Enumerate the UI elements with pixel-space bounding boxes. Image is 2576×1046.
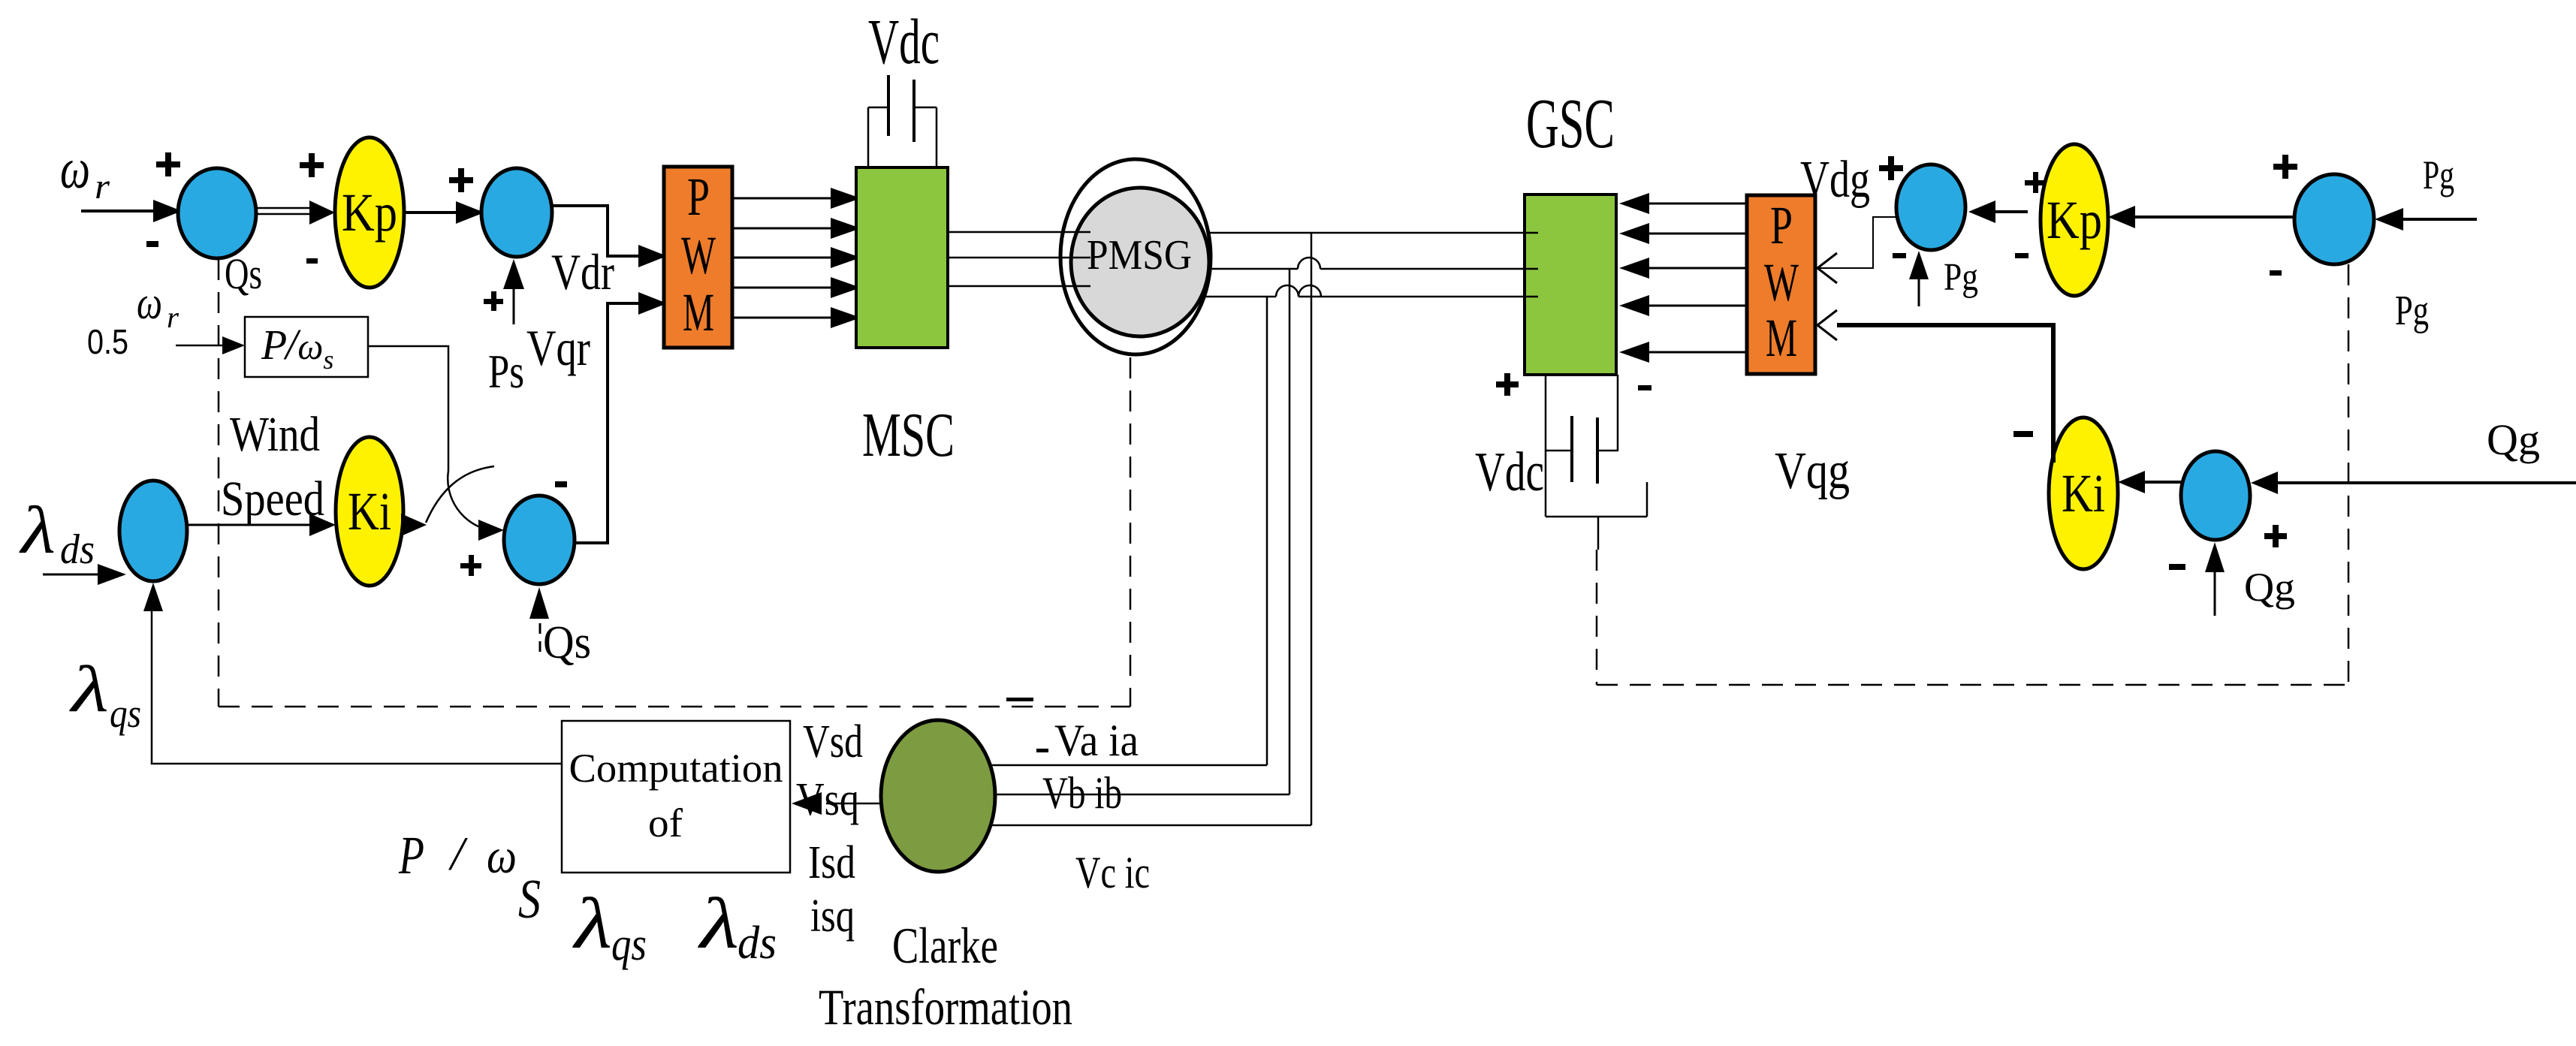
- minus sign at S5 bottom: [1893, 253, 1906, 258]
- svg-text:MSC: MSC: [862, 400, 955, 470]
- wire PWM to MSC gate signal 3: [732, 257, 831, 259]
- svg-text:P: P: [687, 167, 710, 227]
- gain block Ki (MSC q-axis): [336, 437, 403, 586]
- minus sign below Kp2: [2015, 253, 2029, 258]
- svg-text:r: r: [167, 300, 179, 334]
- wire lambda_ds arrow into S4: [43, 574, 98, 576]
- junction thin V arrow PWM2 input 1: [1817, 253, 1837, 283]
- block PWM (grid side): [1747, 195, 1815, 374]
- svg-text:ω: ω: [137, 278, 162, 329]
- svg-text:of: of: [648, 800, 683, 846]
- svg-text:r: r: [95, 167, 110, 206]
- minus sign on dashed feedback: [1006, 698, 1033, 701]
- gain block Kp (MSC d-axis): [335, 137, 404, 288]
- plus sign at S3 left input: [460, 555, 481, 576]
- svg-text:Qg: Qg: [2244, 565, 2295, 610]
- svg-text:Pg: Pg: [1944, 256, 1978, 299]
- svg-text:Transformation: Transformation: [819, 978, 1072, 1035]
- wire measurement tap B (x=1717): [1289, 269, 1291, 794]
- svg-text:PMSG: PMSG: [1087, 232, 1192, 279]
- svg-text:P: P: [1770, 195, 1793, 255]
- wire S2 output to PWM Vdr input: [552, 206, 644, 256]
- svg-text:Kp: Kp: [2047, 190, 2102, 250]
- plus sign before S2: [449, 168, 473, 192]
- wire Ki output hop curve: [426, 466, 494, 523]
- wire lambda_qs feedback from Computation box to S4: [152, 610, 562, 764]
- block PWM (machine side): [664, 167, 732, 348]
- svg-text:0.5: 0.5: [87, 322, 128, 361]
- wire omega_r input: [81, 210, 161, 213]
- wire Qg input long line: [2277, 481, 2576, 484]
- wire Pg arrow into S5 bottom: [1918, 278, 1920, 306]
- summing junction S7 (Qg): [2181, 451, 2250, 540]
- svg-text:Ps: Ps: [488, 345, 524, 398]
- wire dashed Qs feedback vertical from S1: [218, 259, 220, 707]
- svg-text:Computation: Computation: [569, 746, 783, 791]
- wire PWM2 to GSC gate signal 5: [1645, 351, 1748, 354]
- svg-text:GSC: GSC: [1526, 85, 1615, 163]
- svg-text:Qs: Qs: [543, 617, 591, 668]
- wire dashed Vdc feedback loop right: [1596, 550, 1598, 685]
- plus sign before Kp2: [2025, 172, 2046, 193]
- svg-text:Speed: Speed: [221, 472, 324, 526]
- wire S4 to Ki: [187, 524, 309, 526]
- transformer Clarke ellipse: [881, 720, 995, 872]
- svg-text:Qs: Qs: [225, 249, 262, 298]
- wire Kp2 to S5: [1995, 210, 2028, 213]
- svg-text:Vsq: Vsq: [796, 774, 859, 825]
- svg-text:Pg: Pg: [2395, 288, 2429, 334]
- wire Clarke to Computation box: [826, 803, 882, 805]
- wire S6 to Kp2: [2135, 216, 2296, 219]
- block MSC converter: [856, 167, 948, 348]
- wire Vqr path from S3 up to PWM: [575, 303, 644, 543]
- wire Clarke Vc line: [989, 824, 1311, 827]
- wire PWM2 to GSC gate signal 2: [1645, 233, 1748, 235]
- minus sign above Ki2: [2013, 431, 2033, 437]
- svg-text:W: W: [1764, 252, 1799, 312]
- wire 0.5wr to P/ws box: [176, 345, 225, 347]
- svg-text:Isd: Isd: [808, 837, 855, 888]
- wire measurement tap C (x=1746): [1311, 234, 1313, 825]
- minus sign before Kp: [306, 258, 318, 264]
- wire S5 thin output to PWM2: [1837, 217, 1899, 268]
- svg-text:ds: ds: [738, 918, 777, 969]
- svg-text:ds: ds: [60, 526, 95, 573]
- gain block Kp (GSC): [2041, 144, 2108, 296]
- summing junction S6 (Pg): [2294, 174, 2374, 264]
- svg-text:Vb ib: Vb ib: [1042, 768, 1122, 818]
- wire PWM to MSC gate signal 1: [732, 197, 831, 200]
- wire PWM to MSC gate signal 5: [732, 317, 831, 319]
- svg-text:λ: λ: [68, 653, 109, 726]
- svg-text:isq: isq: [810, 891, 855, 942]
- svg-text:Vdc: Vdc: [868, 5, 940, 77]
- svg-text:λ: λ: [18, 493, 56, 568]
- capacitor Vdc (DC link bottom): [1545, 375, 1547, 517]
- wire PWM to MSC gate signal 4: [732, 287, 831, 289]
- junction hop arcs on phase c: [1276, 285, 1299, 297]
- plus sign above S6: [2273, 155, 2297, 179]
- svg-text:Vqg: Vqg: [1775, 442, 1850, 500]
- svg-text:W: W: [681, 225, 716, 285]
- block GSC converter: [1525, 194, 1616, 375]
- svg-text:M: M: [1766, 308, 1797, 368]
- wire double line S1 to Kp: [257, 207, 309, 210]
- svg-text:Clarke: Clarke: [892, 917, 998, 974]
- summing junction S5 (Vdg): [1896, 164, 1965, 250]
- svg-text:Vsd: Vsd: [803, 716, 863, 767]
- wire 3-phase bus phase c with hop gaps: [1172, 296, 1276, 298]
- wire S7 to Ki2: [2144, 481, 2182, 484]
- svg-text:λ: λ: [697, 883, 739, 963]
- summing junction S2 (Vdr): [481, 168, 552, 257]
- wire PWM2 to GSC gate signal 3: [1645, 267, 1748, 270]
- wire dashed feedback horizontal to S1: [219, 706, 1130, 708]
- junction hop arc on phase b: [1298, 258, 1320, 269]
- svg-text:Kp: Kp: [342, 182, 397, 243]
- minus sign below S6: [2270, 270, 2282, 276]
- svg-text:ω: ω: [487, 829, 517, 884]
- wire PWM2 to GSC gate signal 4: [1645, 305, 1748, 307]
- wires MSC to PMSG 3-phase stubs: [948, 231, 1090, 234]
- wire dashed PMSG rotor feedback down: [1130, 357, 1132, 707]
- plus sign GSC dc link: [1496, 373, 1519, 396]
- svg-text:S: S: [518, 869, 541, 930]
- svg-text:M: M: [683, 282, 714, 342]
- minus sign above S3: [555, 481, 567, 487]
- svg-text:Ki: Ki: [348, 481, 391, 541]
- wire 3-phase bus phase b with hop gap: [1172, 268, 1298, 270]
- svg-text:ω: ω: [60, 137, 90, 200]
- wire Qg arrow into S7 bottom: [2214, 571, 2216, 616]
- junction thin V arrow PWM2 input 2: [1817, 310, 1837, 340]
- minus sign at S7 bottom arrow: [2169, 564, 2185, 570]
- wire PWM to MSC gate signal 2: [732, 228, 831, 230]
- capacitor Vdc (DC link top): [887, 75, 890, 136]
- wire P/ws box output to S3: [368, 346, 490, 530]
- svg-text:qs: qs: [611, 919, 647, 970]
- summing junction S3 (Qs reactive): [504, 496, 575, 584]
- block Computation of P/ws: [562, 721, 790, 873]
- minus sign GSC dc link: [1638, 385, 1651, 390]
- svg-text:Vdc: Vdc: [1475, 442, 1544, 503]
- block P/omega_s box: [245, 317, 368, 377]
- generator PMSG: [1060, 159, 1211, 354]
- summing junction S4 (lambda_ds): [119, 481, 187, 581]
- svg-text:Vqr: Vqr: [526, 319, 590, 376]
- svg-text:Ki: Ki: [2062, 463, 2105, 523]
- plus sign before Kp: [300, 153, 324, 177]
- wire Kp to summer S2: [404, 211, 460, 214]
- svg-text:λ: λ: [572, 883, 612, 963]
- summing junction S1 (speed/Qs): [178, 168, 256, 258]
- plus sign right of S7: [2264, 525, 2287, 547]
- svg-text:Vc ic: Vc ic: [1075, 848, 1150, 897]
- wire measurement tap A (x=1687): [1266, 297, 1268, 765]
- wire Clarke Va line: [991, 764, 1267, 767]
- plus sign at summer S1 input: [156, 152, 180, 176]
- svg-text:P/ωs: P/ωs: [261, 320, 333, 375]
- svg-text:Wind: Wind: [230, 407, 320, 462]
- wire 3-phase bus phase a: [1172, 232, 1529, 234]
- minus sign before Va: [1036, 749, 1048, 752]
- wire dashed Qs stub with arrow into S3 bottom: [539, 621, 541, 652]
- svg-text:Vdr: Vdr: [551, 243, 614, 300]
- svg-text:Vdg: Vdg: [1800, 151, 1870, 209]
- svg-text:Qg: Qg: [2487, 415, 2540, 464]
- plus sign above S5: [1879, 156, 1903, 180]
- svg-text:qs: qs: [110, 691, 141, 736]
- wire Ps arrow into S2 bottom: [513, 287, 515, 324]
- svg-text:Pg: Pg: [2423, 152, 2454, 197]
- wire PWM2 to GSC gate signal 1: [1645, 203, 1748, 205]
- svg-text:Va ia: Va ia: [1054, 716, 1139, 765]
- wire Ki2 output thick to PWM2: [1837, 325, 2053, 463]
- minus sign at summer S1: [146, 241, 158, 247]
- wire Pg input from right: [2403, 218, 2477, 221]
- svg-text:P: P: [398, 825, 424, 885]
- wire 3-phase entry ticks into GSC: [1525, 232, 1538, 234]
- plus sign for Ps input: [484, 291, 503, 311]
- gain block Ki (GSC): [2049, 417, 2118, 569]
- wire Clarke Vb line: [994, 794, 1290, 796]
